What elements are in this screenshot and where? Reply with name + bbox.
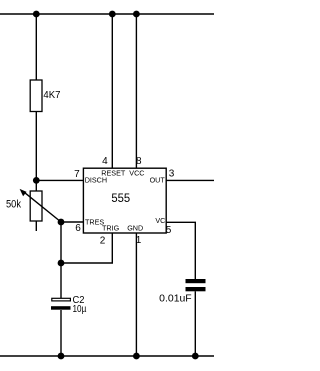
- svg-text:555: 555: [111, 191, 130, 205]
- svg-text:50k: 50k: [6, 199, 21, 211]
- svg-text:6: 6: [75, 223, 81, 234]
- svg-text:8: 8: [136, 156, 142, 167]
- svg-text:2: 2: [100, 235, 106, 246]
- svg-text:OUT: OUT: [150, 176, 166, 185]
- svg-text:0.01uF: 0.01uF: [159, 294, 192, 305]
- svg-text:4K7: 4K7: [43, 89, 60, 101]
- svg-text:DISCH: DISCH: [85, 176, 107, 185]
- svg-text:VCC: VCC: [129, 169, 144, 178]
- svg-text:3: 3: [169, 169, 175, 180]
- svg-text:VC: VC: [155, 216, 165, 225]
- svg-text:1: 1: [136, 235, 142, 246]
- svg-text:4: 4: [102, 156, 108, 167]
- svg-text:GND: GND: [127, 224, 143, 233]
- svg-text:10µ: 10µ: [73, 304, 87, 315]
- svg-text:7: 7: [74, 169, 80, 180]
- svg-text:TRIG: TRIG: [102, 224, 120, 233]
- svg-text:5: 5: [166, 225, 172, 236]
